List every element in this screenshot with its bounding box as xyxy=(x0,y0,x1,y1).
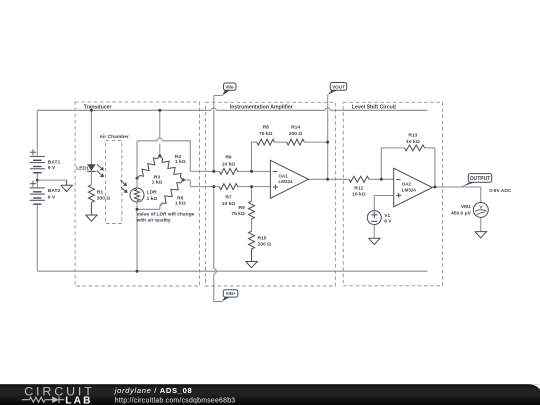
svg-text:OA1: OA1 xyxy=(279,173,289,178)
junction R8 drop on minus line xyxy=(250,170,253,173)
junction bottom rail / bridge drop xyxy=(136,270,139,273)
svg-text:0-5V ADC: 0-5V ADC xyxy=(489,188,512,194)
junction R14 / VOUT vertical xyxy=(326,141,329,144)
resistor R5 xyxy=(160,180,183,206)
junction OA1 output / VOUT vertical xyxy=(326,178,329,181)
LED light emission arrows xyxy=(97,164,101,168)
svg-text:VM1: VM1 xyxy=(461,204,471,210)
svg-text:BAT1: BAT1 xyxy=(48,159,61,165)
voltmeter VM1 xyxy=(473,202,488,217)
svg-text:R13: R13 xyxy=(408,133,417,139)
wire bridge-over horizontal y=140.8 xyxy=(137,140,157,142)
resistor R4 xyxy=(160,156,183,180)
svg-text:200 Ω: 200 Ω xyxy=(258,241,272,247)
svg-text:BAT2: BAT2 xyxy=(48,188,61,194)
resistor R1 xyxy=(88,185,94,203)
wire R13 drop to output xyxy=(434,148,436,187)
wire OA2 feedback riser xyxy=(380,148,382,179)
wire VM1 bottom to ground xyxy=(480,217,482,231)
junction top rail / LED branch xyxy=(90,109,93,112)
svg-text:VOUT: VOUT xyxy=(332,84,345,89)
wire battery ground tap xyxy=(37,179,66,181)
svg-text:Level Shift Circuit: Level Shift Circuit xyxy=(352,104,396,110)
junction bridge left node xyxy=(136,177,139,180)
resistor R13 xyxy=(405,145,425,151)
ground below V1 xyxy=(369,238,381,244)
wire R12 to OA2 minus xyxy=(369,178,394,180)
svg-text:10 kΩ: 10 kΩ xyxy=(222,162,236,168)
svg-text:1 kΩ: 1 kΩ xyxy=(175,159,186,165)
ground battery midpoint xyxy=(66,180,68,185)
wire R9 top connection xyxy=(251,187,253,202)
net flag OUTPUT xyxy=(461,182,475,187)
net flag VIN+ (bottom) xyxy=(222,297,230,301)
wire LED branch from top rail xyxy=(90,110,92,164)
svg-text:75 kΩ: 75 kΩ xyxy=(259,131,273,137)
wire OA2 feedback row R13 xyxy=(381,147,404,149)
svg-text:1 kΩ: 1 kΩ xyxy=(152,180,163,186)
resistor R15 xyxy=(249,231,255,249)
svg-text:R7: R7 xyxy=(225,194,232,200)
svg-text:Transducer: Transducer xyxy=(84,104,112,110)
resistor R14 xyxy=(287,139,305,145)
junction bridge bottom left corner xyxy=(136,208,139,211)
junction R12 / R13 / OA2 minus xyxy=(380,178,383,181)
Level Shift Circuit enclosure box xyxy=(343,102,442,285)
svg-text:jordylane / ADS_08: jordylane / ADS_08 xyxy=(114,386,193,395)
wire VIN- horizontal stub to flag tail xyxy=(214,95,223,97)
resistor R7 xyxy=(219,184,237,190)
svg-text:with air quality: with air quality xyxy=(135,218,171,224)
resistor R6 xyxy=(219,168,237,174)
wire bridge top from rail xyxy=(159,110,161,138)
svg-text:R8: R8 xyxy=(263,125,270,131)
svg-text:Value of LDR will change: Value of LDR will change xyxy=(136,212,194,218)
junction bridge right node xyxy=(182,178,185,181)
LDR incident light arrows xyxy=(120,180,124,184)
wire feedback drop R8 left xyxy=(251,142,253,171)
svg-text:9 V: 9 V xyxy=(48,165,56,171)
junction VIN+ on plus line xyxy=(212,185,215,188)
svg-text:9 V: 9 V xyxy=(48,194,56,200)
wire R9 to R15 xyxy=(251,219,253,231)
svg-text:OA2: OA2 xyxy=(402,181,412,186)
LED LED1 xyxy=(87,164,96,171)
Instrumentation Amplifier enclosure box xyxy=(206,102,336,286)
wire V1 bottom to ground xyxy=(373,225,375,239)
wire OA2 plus to V1 xyxy=(374,195,393,197)
junction battery midpoint / ground tap xyxy=(36,179,39,182)
wire LDR bottom to bridge bottom corner xyxy=(136,202,138,209)
junction bridge top node xyxy=(158,154,161,157)
wire VIN+ stub to flag tail xyxy=(214,301,223,303)
Air Chamber enclosure box xyxy=(106,141,122,224)
svg-text:VIN-: VIN- xyxy=(225,84,234,89)
wire top supply rail xyxy=(37,109,211,111)
voltage source V1 xyxy=(367,211,381,225)
junction VIN- on minus line xyxy=(212,170,215,173)
wire plus input line (R7 row) xyxy=(190,186,219,188)
wire hop y=140.8 over bridge-top vertical xyxy=(157,138,162,141)
ground below R15 xyxy=(251,249,253,262)
svg-text:Instrumentation Amplifier: Instrumentation Amplifier xyxy=(230,104,293,110)
svg-text:LED1: LED1 xyxy=(76,166,89,172)
wire bottom rail xyxy=(37,270,427,272)
resistor R3 xyxy=(137,156,160,178)
resistor R9 xyxy=(249,201,255,219)
wire hop VIN+ vertical over bottom rail xyxy=(214,269,217,274)
svg-text:1 kΩ: 1 kΩ xyxy=(147,196,158,202)
wire VIN+ vertical xyxy=(213,187,215,269)
svg-text:75 kΩ: 75 kΩ xyxy=(231,211,245,217)
wire bridge drop to bottom rail xyxy=(136,209,138,271)
svg-text:330 Ω: 330 Ω xyxy=(97,195,111,201)
wire VIN- vertical xyxy=(213,96,215,172)
ground below VM1 xyxy=(475,232,487,238)
wire hop top rail over VIN- vertical xyxy=(211,108,216,111)
wire feedback row R8-R14 xyxy=(252,141,257,143)
battery BAT2 xyxy=(30,187,45,189)
wire VM1 branch down xyxy=(432,186,481,188)
wire bridge-right drop to minus line xyxy=(189,141,191,172)
svg-text:LAB: LAB xyxy=(65,396,92,405)
svg-text:VIN+: VIN+ xyxy=(226,291,236,296)
photoresistor LDR1 xyxy=(136,178,138,188)
svg-text:10 kΩ: 10 kΩ xyxy=(352,192,366,198)
svg-text:450.0 μV: 450.0 μV xyxy=(451,210,472,216)
svg-text:R14: R14 xyxy=(291,125,300,131)
svg-text:V1: V1 xyxy=(384,213,390,219)
svg-text:R12: R12 xyxy=(354,185,363,191)
op-amp OA2 LM324 xyxy=(394,168,433,207)
svg-text:LDR: LDR xyxy=(147,190,158,196)
svg-text:OUTPUT: OUTPUT xyxy=(470,176,491,182)
footer bar xyxy=(0,384,540,405)
svg-text:R9: R9 xyxy=(239,205,246,211)
wire bridge right node to plus line xyxy=(183,179,190,181)
svg-text:1 kΩ: 1 kΩ xyxy=(175,200,186,206)
net flag VIN- (top) xyxy=(222,90,230,95)
wire bridge bottom short riser xyxy=(159,206,161,209)
junction R9 on plus line xyxy=(250,185,253,188)
junction top rail / bridge top xyxy=(158,109,161,112)
wire minus input line (R6 row) xyxy=(190,170,219,172)
svg-text:Air Chamber: Air Chamber xyxy=(100,134,129,140)
op-amp OA1 LM324 xyxy=(270,160,308,198)
svg-text:200 Ω: 200 Ω xyxy=(289,131,303,137)
resistor R12 xyxy=(349,176,369,182)
Transducer enclosure box xyxy=(75,102,199,286)
svg-text:R5: R5 xyxy=(177,195,184,201)
ground below R1 xyxy=(90,203,92,216)
svg-text:6 V: 6 V xyxy=(384,219,392,225)
svg-text:R4: R4 xyxy=(175,154,182,160)
wire OA1 output row xyxy=(308,178,349,180)
svg-text:10 kΩ: 10 kΩ xyxy=(406,139,420,145)
resistor R8 xyxy=(257,139,275,145)
wire hop top rail over VOUT vertical xyxy=(325,108,330,111)
svg-text:R1: R1 xyxy=(97,189,104,195)
svg-text:http://circuitlab.com/csdqbmse: http://circuitlab.com/csdqbmsee68b3 xyxy=(115,398,236,405)
wire VOUT vertical xyxy=(327,95,329,180)
net flag VOUT xyxy=(328,90,337,95)
wire bridge-left riser x=137 xyxy=(136,141,138,179)
svg-text:10 kΩ: 10 kΩ xyxy=(222,201,236,207)
svg-text:R15: R15 xyxy=(258,236,267,242)
svg-text:LM324: LM324 xyxy=(279,179,294,184)
battery BAT1 xyxy=(30,155,45,157)
svg-text:LM324: LM324 xyxy=(402,187,417,192)
junction R13 / OA2 output xyxy=(433,186,436,189)
svg-text:R6: R6 xyxy=(225,155,232,161)
wire left rail battery branch xyxy=(36,110,38,156)
